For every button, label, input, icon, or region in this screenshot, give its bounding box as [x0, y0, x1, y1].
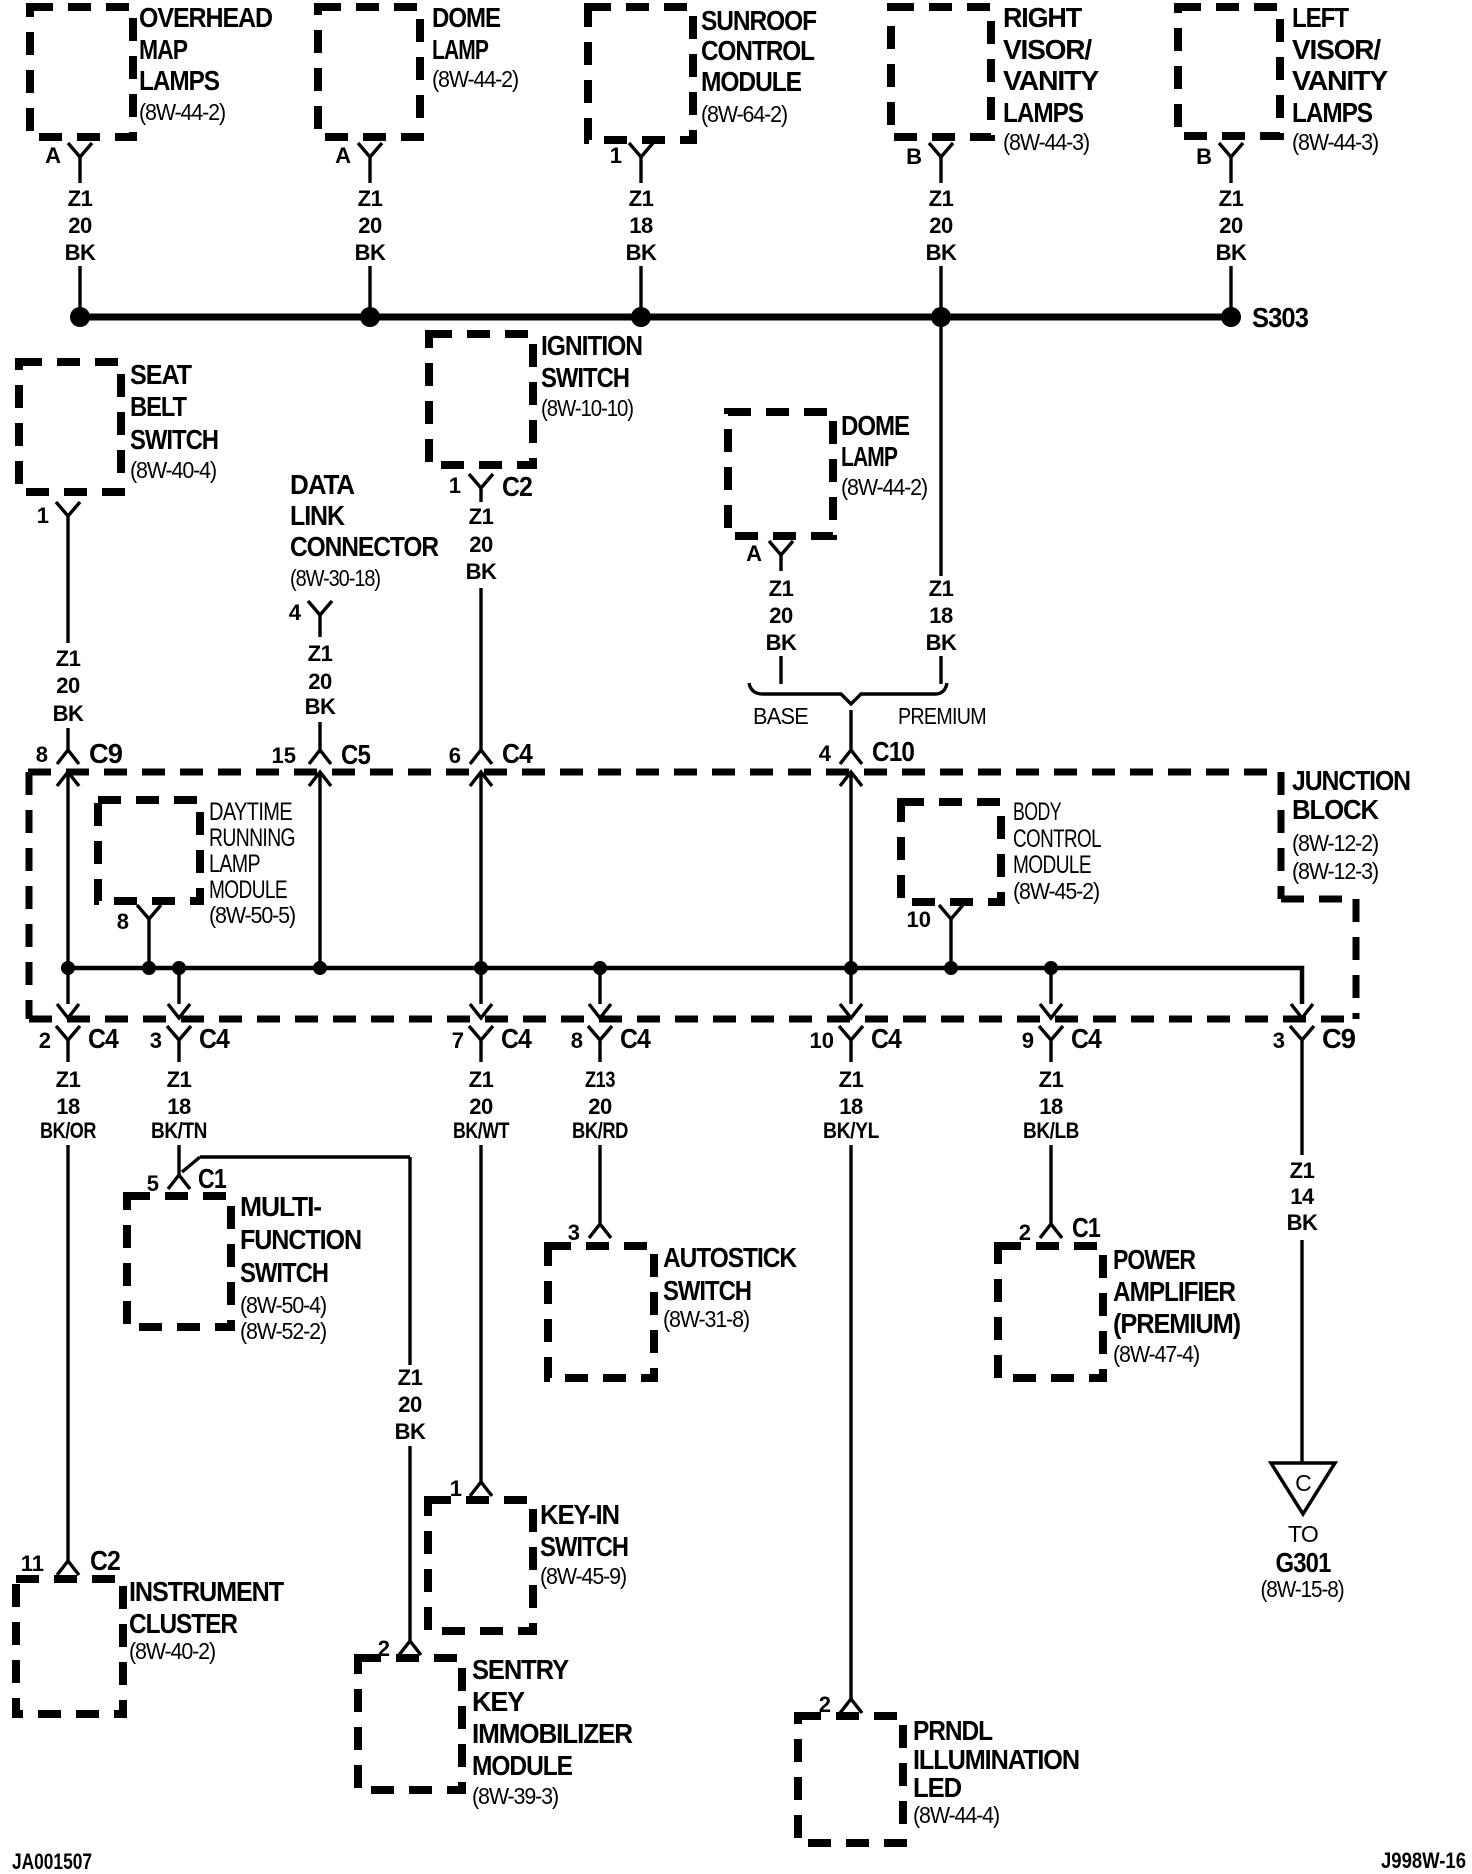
- wire left visor to S303 bus: [1229, 266, 1232, 317]
- svg-text:BK: BK: [1287, 1210, 1318, 1235]
- component box: DOME LAMP (overhead): [318, 7, 420, 137]
- svg-text:S303: S303: [1252, 302, 1308, 333]
- svg-text:1: 1: [37, 503, 49, 528]
- svg-text:MODULE: MODULE: [472, 1750, 572, 1781]
- svg-text:BK/OR: BK/OR: [40, 1118, 96, 1143]
- wire 3C4 to multi-function switch: [177, 1145, 180, 1175]
- component box: KEY-IN SWITCH: [428, 1500, 533, 1631]
- svg-text:AUTOSTICK: AUTOSTICK: [663, 1242, 797, 1273]
- svg-text:LAMPS: LAMPS: [1003, 97, 1083, 128]
- component box: SENTRY KEY IMMOBILIZER MODULE: [358, 1658, 462, 1790]
- svg-text:SWITCH: SWITCH: [130, 424, 218, 455]
- svg-text:11: 11: [21, 1551, 44, 1576]
- svg-text:BK/YL: BK/YL: [823, 1118, 879, 1143]
- svg-text:9: 9: [1022, 1028, 1034, 1053]
- svg-text:(8W-10-10): (8W-10-10): [541, 395, 633, 421]
- splice wire down to sentry key: [408, 1157, 411, 1365]
- svg-text:CLUSTER: CLUSTER: [129, 1608, 238, 1639]
- wire data link to junction block C5: [318, 722, 321, 750]
- svg-text:20: 20: [1219, 213, 1243, 238]
- svg-text:A: A: [746, 541, 762, 566]
- bus dot BCM: [944, 961, 958, 975]
- svg-text:LAMP: LAMP: [209, 850, 260, 878]
- svg-text:C4: C4: [871, 1023, 902, 1054]
- component box: OVERHEAD MAP LAMPS: [30, 7, 133, 137]
- junction block internal ground bus: [68, 968, 1302, 1004]
- svg-text:(8W-39-3): (8W-39-3): [472, 1783, 559, 1809]
- wire 3C9 to ground G301: [1300, 1240, 1303, 1462]
- svg-text:LEFT: LEFT: [1292, 2, 1349, 33]
- wire base stub to brace: [779, 656, 782, 684]
- svg-text:A: A: [335, 143, 351, 168]
- ground symbol triangle C: [1271, 1463, 1335, 1514]
- connector 2 (sentry key module): [399, 1641, 421, 1655]
- svg-text:LAMPS: LAMPS: [1292, 97, 1372, 128]
- svg-text:BK: BK: [1216, 240, 1247, 265]
- exit arrow at x=1051: [1040, 1004, 1062, 1018]
- wire 7C4 to key-in switch: [479, 1145, 482, 1482]
- svg-text:10: 10: [810, 1028, 834, 1053]
- svg-text:18: 18: [1039, 1094, 1063, 1119]
- svg-text:BASE: BASE: [753, 703, 808, 729]
- component box: POWER AMPLIFIER (PREMIUM): [998, 1246, 1103, 1378]
- wire dome lamp to S303 bus: [368, 266, 371, 317]
- component box: LEFT VISOR/VANITY LAMPS: [1178, 7, 1280, 136]
- connector 8 C4 below junction block: [588, 1026, 612, 1040]
- svg-text:1: 1: [449, 473, 461, 498]
- svg-text:(8W-44-2): (8W-44-2): [432, 66, 519, 92]
- exit wire 9C4: [1049, 968, 1052, 1004]
- svg-text:RIGHT: RIGHT: [1003, 2, 1082, 33]
- wire map lamps to S303 bus: [78, 266, 81, 317]
- wire premium from right visor dot: [939, 320, 942, 576]
- svg-text:BK: BK: [65, 240, 96, 265]
- bus dot C10/10C4: [844, 961, 858, 975]
- svg-text:4: 4: [819, 741, 832, 766]
- svg-text:BK: BK: [926, 240, 957, 265]
- svg-text:B: B: [906, 144, 922, 169]
- svg-text:DATA: DATA: [290, 469, 355, 500]
- component box: SEAT BELT SWITCH: [19, 362, 121, 492]
- junction block right border jog: [1281, 896, 1356, 903]
- svg-text:Z1: Z1: [469, 504, 494, 529]
- component box: DAYTIME RUNNING LAMP MODULE: [98, 800, 200, 901]
- svg-text:TO: TO: [1288, 1521, 1318, 1547]
- svg-text:C1: C1: [198, 1163, 226, 1194]
- exit arrow at x=68: [57, 1004, 79, 1018]
- svg-text:B: B: [1196, 144, 1212, 169]
- svg-text:(8W-12-2): (8W-12-2): [1292, 830, 1379, 856]
- component box: INSTRUMENT CLUSTER: [16, 1579, 123, 1714]
- svg-text:18: 18: [167, 1094, 191, 1119]
- svg-text:3: 3: [150, 1028, 162, 1053]
- component box: PRNDL ILLUMINATION LED: [798, 1716, 903, 1843]
- svg-text:4: 4: [289, 600, 302, 625]
- svg-text:C9: C9: [89, 738, 122, 769]
- exit arrow at x=1302: [1291, 1004, 1313, 1018]
- svg-text:20: 20: [398, 1392, 422, 1417]
- svg-text:C4: C4: [1071, 1023, 1102, 1054]
- connector 2 (PRNDL LED): [840, 1699, 862, 1713]
- svg-text:20: 20: [358, 213, 382, 238]
- svg-text:20: 20: [469, 1094, 493, 1119]
- bus dot 8C4: [593, 961, 607, 975]
- bus dot C5: [313, 961, 327, 975]
- svg-text:(8W-31-8): (8W-31-8): [663, 1306, 750, 1332]
- svg-text:SWITCH: SWITCH: [663, 1275, 751, 1306]
- svg-text:20: 20: [929, 213, 953, 238]
- brace BASE/PREMIUM merge: [749, 683, 947, 704]
- svg-text:LINK: LINK: [290, 500, 345, 531]
- component box: RIGHT VISOR/VANITY LAMPS: [891, 7, 991, 137]
- component box: MULTI-FUNCTION SWITCH: [127, 1196, 231, 1327]
- wire 9C4 to power amplifier: [1049, 1145, 1052, 1224]
- svg-text:Z13: Z13: [585, 1067, 615, 1092]
- svg-text:JUNCTION: JUNCTION: [1292, 765, 1410, 796]
- svg-text:VANITY: VANITY: [1003, 65, 1100, 96]
- svg-text:1: 1: [610, 143, 622, 168]
- svg-text:Z1: Z1: [56, 646, 81, 671]
- svg-text:(8W-50-5): (8W-50-5): [209, 902, 296, 928]
- svg-text:BK/TN: BK/TN: [151, 1118, 207, 1143]
- svg-text:FUNCTION: FUNCTION: [240, 1224, 361, 1255]
- svg-text:SUNROOF: SUNROOF: [701, 5, 817, 36]
- svg-text:8: 8: [117, 909, 129, 934]
- svg-text:18: 18: [56, 1094, 80, 1119]
- svg-text:C4: C4: [88, 1023, 119, 1054]
- svg-text:(8W-12-3): (8W-12-3): [1292, 858, 1379, 884]
- wire brace to C10: [849, 710, 852, 750]
- bus dot DRL: [142, 961, 156, 975]
- svg-text:18: 18: [629, 213, 653, 238]
- connector 8 C9 into junction block: [57, 750, 79, 764]
- svg-text:(8W-44-3): (8W-44-3): [1292, 129, 1379, 155]
- connector 9 C4 below junction block: [1039, 1026, 1063, 1040]
- svg-text:BK: BK: [395, 1419, 426, 1444]
- svg-text:Z1: Z1: [398, 1365, 423, 1390]
- svg-text:DOME: DOME: [841, 410, 909, 441]
- entry arrow C4 wire into block: [470, 772, 492, 786]
- junction block right border upper: [1278, 772, 1285, 899]
- connector 2 C4 below junction block: [56, 1026, 80, 1040]
- svg-text:PREMIUM: PREMIUM: [898, 703, 986, 729]
- svg-text:1: 1: [450, 1476, 462, 1501]
- svg-text:SENTRY: SENTRY: [472, 1654, 569, 1685]
- junction dot right visor: [931, 307, 951, 327]
- connector 4 C10 into junction block: [840, 750, 862, 764]
- wire 8C4 to autostick switch: [598, 1145, 601, 1224]
- svg-text:BK: BK: [355, 240, 386, 265]
- svg-text:14: 14: [1290, 1184, 1315, 1209]
- svg-text:BK: BK: [305, 694, 336, 719]
- svg-text:20: 20: [308, 669, 332, 694]
- svg-text:(8W-45-9): (8W-45-9): [540, 1563, 627, 1589]
- bus dot 7C4: [474, 961, 488, 975]
- connector 7 C4 below junction block: [469, 1026, 493, 1040]
- bus dot 9C4: [1044, 961, 1058, 975]
- exit arrow at x=851: [840, 1004, 862, 1018]
- svg-text:Z1: Z1: [929, 576, 954, 601]
- svg-text:2: 2: [39, 1028, 51, 1053]
- svg-text:VISOR/: VISOR/: [1003, 34, 1092, 65]
- svg-text:8: 8: [571, 1028, 583, 1053]
- wire right visor to S303 bus: [939, 266, 942, 317]
- svg-text:SWITCH: SWITCH: [540, 1531, 628, 1562]
- wire seat belt to junction block C9: [66, 728, 69, 750]
- svg-text:BK: BK: [926, 630, 957, 655]
- svg-text:G301: G301: [1276, 1547, 1331, 1578]
- svg-text:LAMPS: LAMPS: [139, 65, 219, 96]
- svg-text:DOME: DOME: [432, 2, 500, 33]
- svg-text:POWER: POWER: [1113, 1244, 1196, 1275]
- junction dot sunroof: [631, 307, 651, 327]
- svg-text:AMPLIFIER: AMPLIFIER: [1113, 1276, 1236, 1307]
- svg-text:8: 8: [36, 742, 48, 767]
- svg-text:LAMP: LAMP: [432, 34, 488, 65]
- svg-text:BELT: BELT: [130, 391, 187, 422]
- svg-text:18: 18: [839, 1094, 863, 1119]
- junction dot dome lamp: [360, 307, 380, 327]
- svg-text:A: A: [45, 143, 61, 168]
- connector 15 C5 into junction block: [309, 750, 331, 764]
- svg-text:Z1: Z1: [1219, 186, 1244, 211]
- svg-text:(8W-44-2): (8W-44-2): [139, 99, 226, 125]
- svg-text:(8W-52-2): (8W-52-2): [240, 1318, 327, 1344]
- svg-text:C1: C1: [1072, 1212, 1100, 1243]
- svg-text:20: 20: [588, 1094, 612, 1119]
- svg-text:Z1: Z1: [308, 641, 333, 666]
- svg-text:LED: LED: [913, 1772, 962, 1803]
- wire 10C4 to PRNDL LED: [849, 1145, 852, 1699]
- svg-text:BK/WT: BK/WT: [453, 1118, 510, 1143]
- svg-text:CONTROL: CONTROL: [701, 35, 815, 66]
- svg-text:Z1: Z1: [629, 186, 654, 211]
- svg-text:C4: C4: [620, 1023, 651, 1054]
- svg-text:C9: C9: [1322, 1023, 1355, 1054]
- junction block top border: [28, 769, 1281, 776]
- component box: DOME LAMP (base/premium): [728, 412, 833, 536]
- connector 3 C9 below junction block: [1290, 1026, 1314, 1040]
- svg-text:Z1: Z1: [68, 186, 93, 211]
- junction dot map lamps: [70, 307, 90, 327]
- svg-text:ILLUMINATION: ILLUMINATION: [913, 1744, 1079, 1775]
- svg-text:BODY: BODY: [1013, 798, 1062, 826]
- junction dot S303: [1221, 307, 1241, 327]
- svg-text:C: C: [1295, 1470, 1311, 1496]
- svg-text:IMMOBILIZER: IMMOBILIZER: [472, 1718, 633, 1749]
- svg-text:BK: BK: [626, 240, 657, 265]
- wire ignition to junction block C4: [479, 588, 482, 750]
- svg-text:VANITY: VANITY: [1292, 65, 1389, 96]
- svg-text:C4: C4: [501, 1023, 532, 1054]
- exit arrow at x=600: [589, 1004, 611, 1018]
- svg-text:LAMP: LAMP: [841, 441, 897, 472]
- wire premium stub to brace: [939, 656, 942, 684]
- connector 3 (autostick switch): [589, 1224, 611, 1238]
- svg-text:J998W-16: J998W-16: [1381, 1848, 1466, 1873]
- bus dot C9/2C4: [61, 961, 75, 975]
- svg-text:(8W-15-8): (8W-15-8): [1261, 1576, 1344, 1602]
- svg-text:7: 7: [452, 1028, 464, 1053]
- wire sunroof to S303 bus: [639, 266, 642, 317]
- svg-text:Z1: Z1: [1290, 1158, 1315, 1183]
- svg-text:VISOR/: VISOR/: [1292, 34, 1381, 65]
- svg-text:10: 10: [907, 907, 931, 932]
- svg-text:Z1: Z1: [1039, 1067, 1064, 1092]
- svg-text:(PREMIUM): (PREMIUM): [1113, 1308, 1240, 1339]
- connector 6 C4 into junction block: [470, 750, 492, 764]
- svg-text:SWITCH: SWITCH: [240, 1257, 328, 1288]
- svg-text:PRNDL: PRNDL: [913, 1715, 993, 1746]
- junction block bottom border: [29, 1016, 1356, 1023]
- component box: IGNITION SWITCH: [429, 334, 533, 465]
- svg-text:18: 18: [929, 603, 953, 628]
- svg-text:20: 20: [56, 673, 80, 698]
- component box: SUNROOF CONTROL MODULE: [588, 7, 693, 140]
- svg-text:15: 15: [272, 743, 296, 768]
- svg-text:BK: BK: [53, 701, 84, 726]
- svg-text:C2: C2: [90, 1545, 120, 1576]
- svg-text:BLOCK: BLOCK: [1292, 794, 1379, 825]
- svg-text:KEY-IN: KEY-IN: [540, 1499, 619, 1530]
- connector 11 C2 (instrument cluster): [57, 1561, 79, 1575]
- svg-text:20: 20: [469, 532, 493, 557]
- connector 10 C4 below junction block: [839, 1026, 863, 1040]
- splice wire diagonal from C1: [182, 1157, 200, 1172]
- svg-text:Z1: Z1: [769, 576, 794, 601]
- svg-text:(8W-47-4): (8W-47-4): [1113, 1341, 1200, 1367]
- svg-text:IGNITION: IGNITION: [541, 330, 642, 361]
- svg-text:Z1: Z1: [358, 186, 383, 211]
- svg-text:CONNECTOR: CONNECTOR: [290, 531, 439, 562]
- svg-text:(8W-30-18): (8W-30-18): [290, 565, 380, 591]
- svg-text:C5: C5: [341, 739, 370, 770]
- exit wire 8C4: [598, 968, 601, 1004]
- svg-text:(8W-44-4): (8W-44-4): [913, 1802, 1000, 1828]
- svg-text:Z1: Z1: [929, 186, 954, 211]
- svg-text:MODULE: MODULE: [701, 66, 801, 97]
- svg-text:OVERHEAD: OVERHEAD: [139, 2, 273, 33]
- entry arrow C9 wire into block: [57, 772, 79, 786]
- component box: BODY CONTROL MODULE: [901, 802, 1001, 902]
- svg-text:(8W-44-2): (8W-44-2): [841, 474, 928, 500]
- svg-text:C10: C10: [872, 736, 914, 767]
- svg-text:INSTRUMENT: INSTRUMENT: [129, 1576, 284, 1607]
- exit arrow at x=179: [168, 1004, 190, 1018]
- svg-text:C2: C2: [502, 471, 532, 502]
- svg-text:20: 20: [769, 603, 793, 628]
- exit wire 3C4: [177, 968, 180, 1004]
- svg-text:3: 3: [1273, 1028, 1285, 1053]
- svg-text:(8W-64-2): (8W-64-2): [701, 101, 788, 127]
- svg-text:JA001507: JA001507: [12, 1849, 92, 1874]
- bus dot 3C4: [172, 961, 186, 975]
- svg-text:C4: C4: [199, 1023, 230, 1054]
- junction block right border lower: [1353, 899, 1360, 1019]
- svg-text:3: 3: [568, 1220, 580, 1245]
- splice bus S303: [80, 314, 1231, 321]
- svg-text:Z1: Z1: [167, 1067, 192, 1092]
- connector 5 C1 (multi-function switch): [168, 1175, 190, 1189]
- svg-text:CONTROL: CONTROL: [1013, 825, 1102, 853]
- svg-text:SEAT: SEAT: [130, 359, 192, 390]
- entry arrow C10 wire into block: [840, 772, 862, 786]
- svg-text:C4: C4: [502, 738, 533, 769]
- svg-text:BK: BK: [466, 559, 497, 584]
- connector 2 C1 (power amplifier): [1040, 1224, 1062, 1238]
- svg-text:DAYTIME: DAYTIME: [209, 798, 292, 826]
- svg-text:MODULE: MODULE: [209, 876, 287, 904]
- svg-text:Z1: Z1: [469, 1067, 494, 1092]
- svg-text:BK: BK: [766, 630, 797, 655]
- svg-text:BK/LB: BK/LB: [1023, 1118, 1079, 1143]
- entry arrow C5 wire into block: [309, 772, 331, 786]
- svg-text:MULTI-: MULTI-: [240, 1191, 322, 1222]
- svg-text:(8W-40-4): (8W-40-4): [130, 457, 217, 483]
- exit arrow at x=481: [470, 1004, 492, 1018]
- svg-text:2: 2: [1019, 1220, 1031, 1245]
- svg-text:(8W-44-3): (8W-44-3): [1003, 129, 1090, 155]
- connector 3 C4 below junction block: [167, 1026, 191, 1040]
- svg-text:MODULE: MODULE: [1013, 851, 1091, 879]
- wire 2C4 to instrument cluster: [66, 1145, 69, 1561]
- svg-text:6: 6: [449, 743, 461, 768]
- connector 1 (key-in switch): [470, 1482, 492, 1496]
- junction block left border: [26, 772, 33, 1019]
- svg-text:Z1: Z1: [56, 1067, 81, 1092]
- svg-text:RUNNING: RUNNING: [209, 824, 295, 852]
- svg-text:BK/RD: BK/RD: [572, 1118, 628, 1143]
- svg-text:(8W-40-2): (8W-40-2): [129, 1638, 216, 1664]
- splice wire horizontal run: [200, 1155, 410, 1158]
- svg-text:(8W-45-2): (8W-45-2): [1013, 878, 1100, 904]
- svg-text:SWITCH: SWITCH: [541, 362, 629, 393]
- wire 3C9 upper segment: [1300, 1062, 1303, 1155]
- wire to sentry key pin 2: [408, 1446, 411, 1641]
- svg-text:(8W-50-4): (8W-50-4): [240, 1292, 327, 1318]
- svg-text:MAP: MAP: [139, 34, 187, 65]
- svg-text:KEY: KEY: [472, 1686, 525, 1717]
- component box: AUTOSTICK SWITCH: [548, 1246, 654, 1378]
- svg-text:Z1: Z1: [839, 1067, 864, 1092]
- svg-text:20: 20: [68, 213, 92, 238]
